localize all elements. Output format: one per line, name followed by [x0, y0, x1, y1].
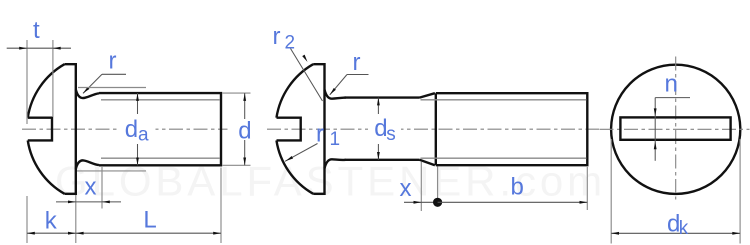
head circle front view [611, 65, 740, 194]
fillet middle top [325, 90, 346, 99]
svg-text:k: k [679, 218, 689, 239]
svg-text:a: a [138, 124, 149, 145]
svg-text:2: 2 [285, 33, 296, 54]
thread minor lines middle [421, 99, 587, 101]
d dimension line [243, 93, 246, 165]
svg-text:x: x [85, 174, 97, 201]
d extension lines [223, 92, 251, 94]
leader r1 [285, 144, 318, 163]
dimension k [27, 196, 76, 243]
svg-text:r: r [353, 49, 361, 76]
d_s dimension [377, 98, 380, 160]
centerline mask behind d_a label [118, 114, 156, 144]
svg-text:n: n [665, 71, 678, 98]
svg-text:d: d [238, 117, 251, 144]
svg-text:t: t [33, 17, 40, 44]
centerline left screw axis [22, 128, 228, 130]
thread start line [435, 93, 437, 165]
dimension x middle [404, 162, 438, 211]
head outline middle [276, 64, 324, 194]
head outline left (dome arc) [28, 64, 76, 194]
svg-text:r: r [316, 121, 324, 148]
svg-text:r: r [273, 23, 281, 50]
leader r2 [291, 49, 323, 102]
fillet under head left bottom [76, 160, 99, 169]
slot front view [620, 117, 730, 139]
plain shank d_s middle [345, 96, 420, 98]
d_k dimension [611, 139, 740, 244]
svg-text:k: k [45, 208, 58, 235]
dimension x left [56, 167, 121, 243]
shank outline left (thread major) [99, 93, 221, 165]
svg-text:1: 1 [330, 129, 341, 150]
svg-text:b: b [511, 174, 524, 201]
leader r left [82, 74, 126, 94]
svg-text:d: d [125, 116, 138, 143]
d_a extension lines [78, 87, 146, 89]
vertical centerline right [675, 57, 677, 200]
svg-text:x: x [400, 175, 412, 202]
fillet under head left top [76, 90, 99, 99]
dimension n [654, 98, 690, 161]
svg-text:r: r [109, 48, 117, 75]
dimension t [7, 40, 71, 124]
horizontal centerline right [600, 128, 750, 130]
thread runout diagonals [420, 93, 435, 97]
dimension b [438, 167, 588, 210]
svg-text:s: s [386, 124, 396, 145]
thread minor lines left [101, 99, 220, 101]
svg-text:L: L [143, 207, 156, 234]
slot notch middle head [277, 118, 301, 141]
centerline middle screw axis [267, 128, 599, 130]
leader r middle [329, 75, 369, 96]
extension from thread start down to dot [437, 167, 439, 199]
fillet middle bottom [325, 159, 346, 168]
centerline mask behind d_s label [368, 114, 401, 144]
slot notch left head [28, 118, 52, 141]
d_a dimension line [136, 93, 139, 165]
origin dot [433, 198, 442, 207]
threaded section outline middle [436, 93, 588, 165]
dimension L [76, 168, 221, 244]
